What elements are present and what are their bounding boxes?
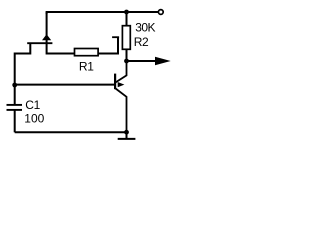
wire: R1 right to T-bar riser xyxy=(99,37,119,53)
node: ground junction dot xyxy=(124,130,129,135)
transistor Q1 bar xyxy=(27,42,52,44)
wire: output xyxy=(127,60,156,62)
svg-text:100: 100 xyxy=(24,112,44,126)
T-bar (gate bar of Q2 style element) xyxy=(112,36,119,38)
transistor Q2 emitter xyxy=(115,88,126,132)
transistor Q2 bar xyxy=(114,74,116,90)
output arrowhead xyxy=(155,57,171,65)
capacitor C1 top plate xyxy=(7,104,23,106)
svg-text:C1: C1 xyxy=(25,98,40,112)
transistor Q2 collector xyxy=(115,61,126,83)
svg-text:30K: 30K xyxy=(135,21,155,35)
wire: top supply rail xyxy=(47,12,159,14)
wire: left vertical down to C1 xyxy=(14,85,16,104)
terminal: open circle top right xyxy=(158,10,163,15)
node: collector/output junction dot xyxy=(124,59,129,64)
wire: base wire to Q2 xyxy=(15,84,115,86)
transistor Q2 arrowhead (points right) xyxy=(118,82,125,87)
capacitor C1 bottom plate xyxy=(7,109,23,111)
resistor R2 wire from rail xyxy=(126,12,128,61)
transistor Q1 (left, arrow up) : emitter lead from rail through bar, then wire right to R1 xyxy=(47,12,75,54)
wire: bottom rail xyxy=(15,131,127,133)
node: junction dot left (base node) xyxy=(12,83,17,88)
wire: C1 to bottom rail xyxy=(14,111,16,133)
resistor R2 body xyxy=(122,26,130,50)
node: junction dot on top rail xyxy=(124,10,129,15)
svg-text:R1: R1 xyxy=(79,59,94,73)
transistor Q1 arrowhead (points up) xyxy=(42,34,51,40)
resistor R1 body xyxy=(75,49,99,56)
svg-text:R2: R2 xyxy=(134,35,149,49)
transistor Q1 base lead: step down-left xyxy=(15,44,31,86)
ground symbol xyxy=(118,132,136,139)
